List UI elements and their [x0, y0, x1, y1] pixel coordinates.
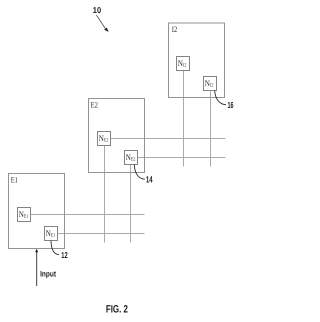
- svg-text:FIG. 2: FIG. 2: [106, 304, 128, 316]
- svg-text:E1: E1: [11, 175, 18, 184]
- svg-text:16: 16: [228, 100, 234, 110]
- svg-text:12: 12: [61, 250, 68, 260]
- svg-text:E2: E2: [91, 100, 98, 109]
- svg-text:14: 14: [146, 174, 153, 184]
- svg-text:Input: Input: [40, 270, 56, 279]
- svg-text:I2: I2: [172, 25, 178, 34]
- svg-text:10: 10: [93, 5, 102, 15]
